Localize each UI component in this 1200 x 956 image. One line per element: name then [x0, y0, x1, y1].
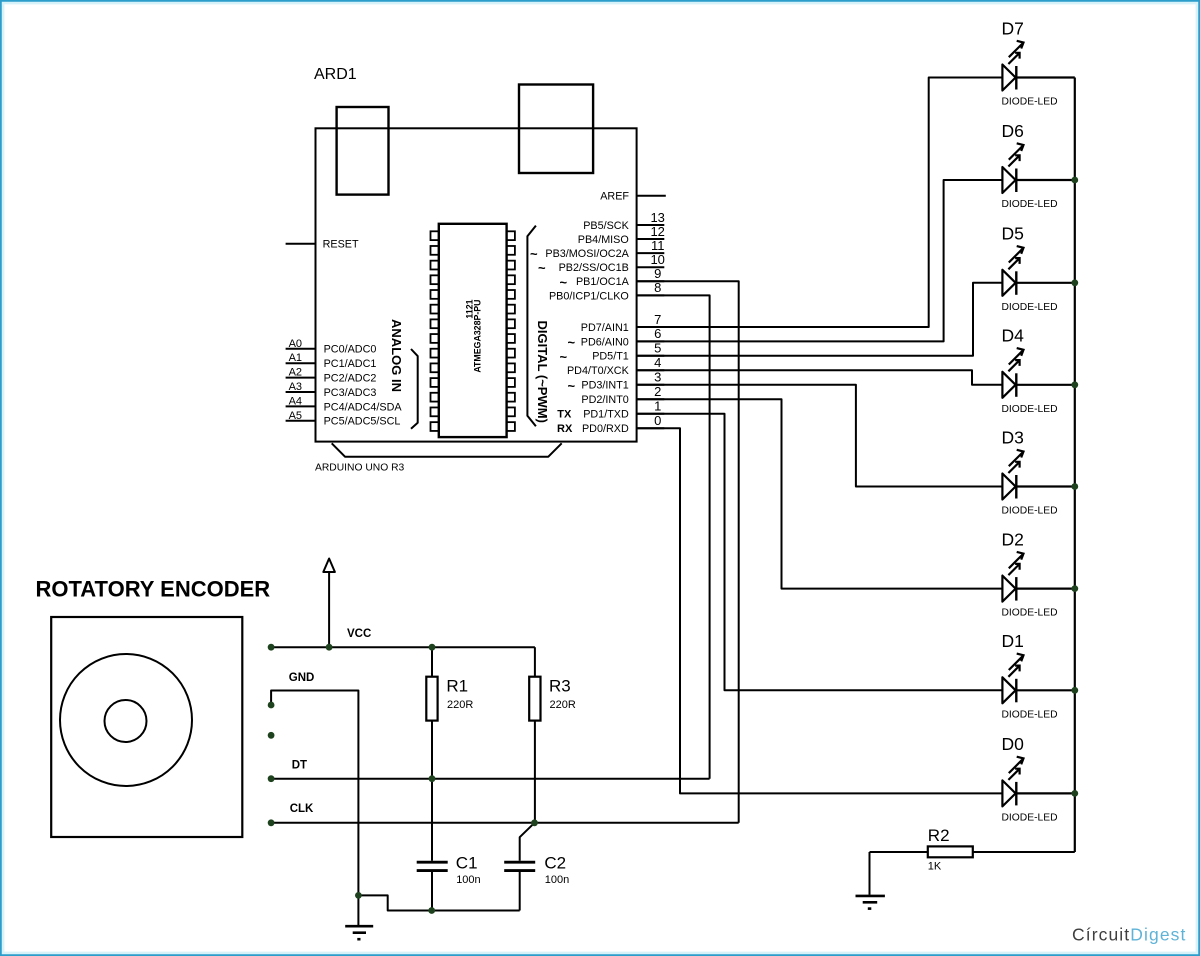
svg-text:PD4/T0/XCK: PD4/T0/XCK: [567, 365, 630, 377]
svg-text:PC4/ADC4/SDA: PC4/ADC4/SDA: [324, 401, 403, 413]
svg-text:PC2/ADC2: PC2/ADC2: [324, 373, 377, 385]
svg-text:TX: TX: [557, 409, 572, 421]
svg-text:0: 0: [654, 413, 661, 428]
svg-text:~: ~: [568, 378, 576, 393]
svg-text:ARDUINO UNO R3: ARDUINO UNO R3: [315, 463, 405, 474]
svg-text:100n: 100n: [456, 874, 480, 886]
svg-text:A5: A5: [289, 410, 302, 422]
svg-text:R3: R3: [549, 676, 571, 695]
svg-text:5: 5: [654, 341, 661, 356]
svg-text:~: ~: [560, 275, 568, 290]
svg-text:PD6/AIN0: PD6/AIN0: [581, 336, 629, 348]
svg-text:~: ~: [530, 247, 538, 262]
svg-text:D7: D7: [1002, 18, 1024, 38]
svg-text:220R: 220R: [550, 699, 576, 711]
svg-text:6: 6: [654, 326, 661, 341]
svg-text:D0: D0: [1002, 734, 1025, 754]
svg-text:A2: A2: [289, 367, 302, 379]
svg-text:PD5/T1: PD5/T1: [592, 351, 629, 363]
svg-text:220R: 220R: [447, 699, 473, 711]
svg-text:RX: RX: [557, 423, 573, 435]
svg-text:PC5/ADC5/SCL: PC5/ADC5/SCL: [324, 416, 401, 428]
svg-text:AREF: AREF: [600, 191, 629, 203]
svg-text:PD7/AIN1: PD7/AIN1: [581, 322, 629, 334]
svg-text:PD3/INT1: PD3/INT1: [581, 380, 628, 392]
svg-text:12: 12: [650, 224, 664, 239]
svg-text:A4: A4: [289, 395, 302, 407]
svg-text:1: 1: [654, 399, 661, 414]
svg-text:2: 2: [654, 384, 661, 399]
svg-text:10: 10: [650, 252, 664, 267]
svg-text:GND: GND: [289, 672, 315, 684]
svg-text:D1: D1: [1002, 631, 1024, 651]
svg-text:CírcuitDigest: CírcuitDigest: [1072, 924, 1186, 944]
svg-text:C2: C2: [544, 853, 566, 872]
svg-text:A0: A0: [289, 338, 302, 350]
svg-text:11: 11: [651, 238, 665, 253]
svg-text:ANALOG IN: ANALOG IN: [389, 319, 404, 392]
svg-text:PD0/RXD: PD0/RXD: [582, 423, 629, 435]
svg-text:13: 13: [650, 210, 664, 225]
svg-text:ROTATORY ENCODER: ROTATORY ENCODER: [36, 576, 271, 601]
svg-text:A3: A3: [289, 381, 302, 393]
svg-text:4: 4: [654, 355, 661, 370]
svg-text:PB1/OC1A: PB1/OC1A: [576, 276, 630, 288]
svg-text:PC3/ADC3: PC3/ADC3: [324, 387, 377, 399]
svg-text:PD1/TXD: PD1/TXD: [583, 409, 629, 421]
svg-text:D6: D6: [1002, 121, 1024, 141]
svg-text:PB0/ICP1/CLKO: PB0/ICP1/CLKO: [549, 290, 629, 302]
svg-text:100n: 100n: [545, 874, 569, 886]
svg-text:1K: 1K: [928, 861, 942, 873]
svg-text:D5: D5: [1002, 224, 1024, 244]
svg-text:~: ~: [568, 335, 576, 350]
svg-text:ARD1: ARD1: [314, 66, 357, 83]
svg-text:D4: D4: [1002, 326, 1025, 346]
svg-text:DT: DT: [292, 760, 307, 772]
svg-text:PD2/INT0: PD2/INT0: [581, 394, 628, 406]
svg-text:C1: C1: [456, 853, 478, 872]
svg-text:R2: R2: [928, 826, 950, 845]
svg-text:PB3/MOSI/OC2A: PB3/MOSI/OC2A: [545, 248, 629, 260]
svg-text:~: ~: [560, 349, 568, 364]
svg-text:DIGITAL (~PWM): DIGITAL (~PWM): [535, 320, 550, 422]
svg-text:~: ~: [538, 261, 546, 276]
svg-text:A1: A1: [289, 352, 302, 364]
svg-text:7: 7: [654, 312, 661, 327]
svg-text:PB5/SCK: PB5/SCK: [583, 220, 629, 232]
svg-text:VCC: VCC: [347, 628, 371, 640]
svg-text:9: 9: [654, 266, 661, 281]
svg-text:3: 3: [654, 370, 661, 385]
svg-text:8: 8: [654, 280, 661, 295]
svg-text:PB4/MISO: PB4/MISO: [578, 234, 629, 246]
svg-text:D2: D2: [1002, 529, 1024, 549]
svg-text:CLK: CLK: [290, 803, 314, 815]
svg-text:PC1/ADC1: PC1/ADC1: [324, 358, 377, 370]
svg-text:PC0/ADC0: PC0/ADC0: [324, 344, 377, 356]
svg-text:D3: D3: [1002, 427, 1024, 447]
svg-text:ATMEGA328P-PU: ATMEGA328P-PU: [473, 300, 483, 373]
svg-text:PB2/SS/OC1B: PB2/SS/OC1B: [559, 262, 629, 274]
svg-text:RESET: RESET: [323, 239, 359, 251]
svg-text:R1: R1: [446, 676, 468, 695]
